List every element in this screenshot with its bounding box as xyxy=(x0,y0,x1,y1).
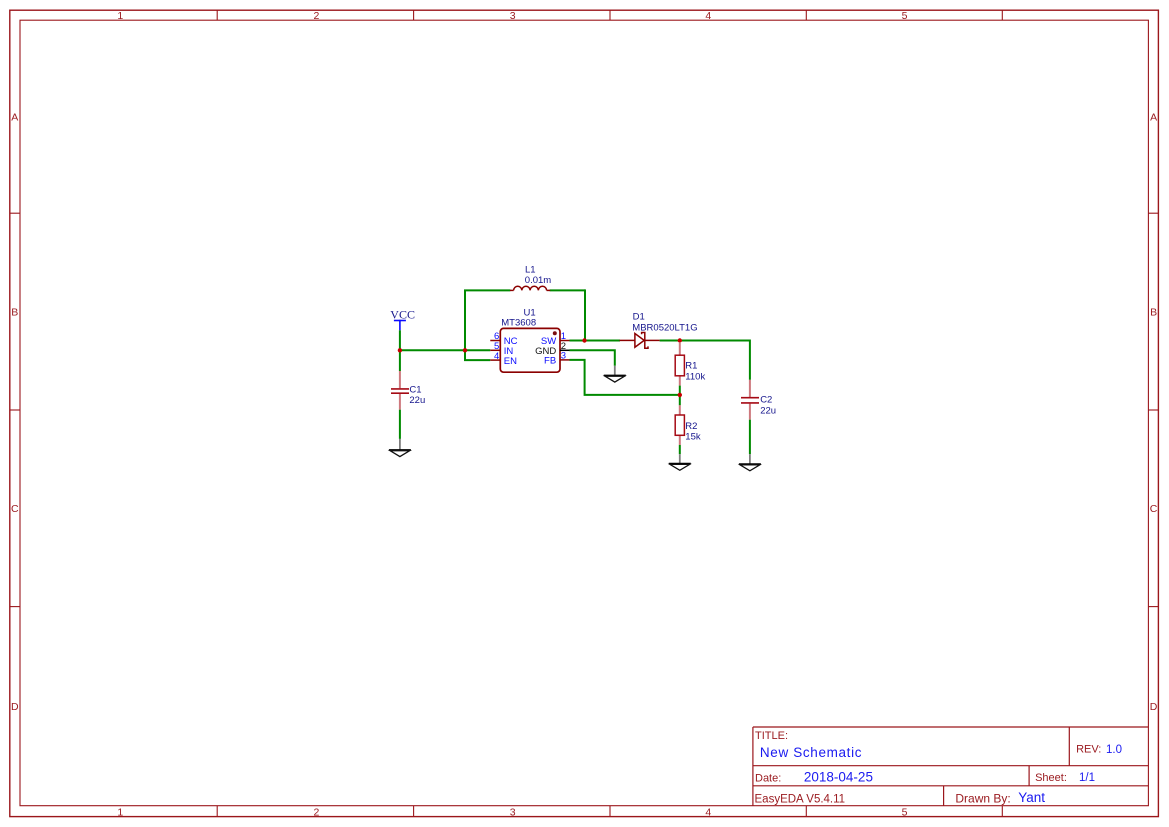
svg-text:Yant: Yant xyxy=(1018,790,1045,805)
pin 5 IN stub xyxy=(490,349,500,351)
U1 pin-1 orientation dot xyxy=(553,331,557,335)
diode D1 MBR0520LT1G xyxy=(620,333,660,349)
svg-text:1/1: 1/1 xyxy=(1079,772,1095,784)
pin 6 NC stub xyxy=(490,340,500,342)
svg-text:EN: EN xyxy=(504,356,517,367)
ground at R2 xyxy=(669,454,691,470)
wire C1 to ground xyxy=(399,410,401,439)
pin 1 SW stub xyxy=(560,340,570,342)
capacitor C1 xyxy=(391,371,409,410)
wire R1 to FB node xyxy=(679,386,681,395)
column labels bottom xyxy=(117,806,907,818)
svg-text:5: 5 xyxy=(902,10,908,22)
pin 4 EN stub xyxy=(490,359,500,361)
net flag VCC xyxy=(390,308,415,331)
pin 2 GND stub xyxy=(560,349,570,351)
svg-text:D1: D1 xyxy=(633,312,645,323)
wire VCC node to IN pin xyxy=(400,349,490,351)
ground at U1 GND pin xyxy=(604,366,626,382)
svg-text:C2: C2 xyxy=(760,395,772,406)
row tick marks right xyxy=(1148,213,1158,606)
wire GND pin horizontal xyxy=(570,350,615,366)
pin 3 FB stub xyxy=(560,359,570,361)
wire VCC stem to C1 top xyxy=(399,330,401,371)
wire diode to output node xyxy=(660,340,750,342)
svg-text:D: D xyxy=(1150,701,1158,713)
resistor R1 xyxy=(675,343,684,386)
svg-text:D: D xyxy=(11,701,19,713)
wire left loop vertical xyxy=(464,290,466,360)
wire right loop vertical to SW net xyxy=(584,289,586,340)
capacitor C2 xyxy=(741,380,759,420)
svg-text:C: C xyxy=(11,503,19,515)
svg-text:2: 2 xyxy=(313,806,319,818)
wire R2 to ground xyxy=(679,445,681,454)
ground at C1 xyxy=(389,439,411,457)
svg-text:0.01m: 0.01m xyxy=(525,275,551,286)
svg-text:B: B xyxy=(1150,307,1157,319)
wire FB pin routing xyxy=(570,360,680,395)
svg-text:5: 5 xyxy=(902,806,908,818)
svg-text:B: B xyxy=(11,307,18,319)
wire EN pin horizontal xyxy=(464,359,490,361)
svg-text:Sheet:: Sheet: xyxy=(1035,772,1067,784)
svg-text:22u: 22u xyxy=(760,405,776,416)
inductor L1 xyxy=(510,286,550,290)
wire L1 right xyxy=(550,289,585,291)
svg-text:EasyEDA V5.4.11: EasyEDA V5.4.11 xyxy=(755,793,846,805)
svg-text:3: 3 xyxy=(561,351,566,362)
op-amp U1 MT3608 body xyxy=(500,328,560,372)
svg-text:TITLE:: TITLE: xyxy=(755,730,788,742)
resistor R2 xyxy=(675,395,684,445)
svg-text:A: A xyxy=(1150,111,1157,123)
svg-text:22u: 22u xyxy=(409,395,425,406)
row labels right xyxy=(1150,111,1158,713)
column tick marks top xyxy=(217,10,1002,20)
row tick marks left xyxy=(10,213,20,606)
svg-text:MT3608: MT3608 xyxy=(501,317,536,328)
svg-text:3: 3 xyxy=(510,10,516,22)
svg-text:2018-04-25: 2018-04-25 xyxy=(804,769,873,784)
wire output node to C2 xyxy=(749,341,750,380)
junction output node at R1 xyxy=(678,338,682,342)
svg-text:1: 1 xyxy=(117,806,123,818)
svg-text:MBR0520LT1G: MBR0520LT1G xyxy=(632,323,697,334)
svg-text:3: 3 xyxy=(510,806,516,818)
svg-text:VCC: VCC xyxy=(390,308,415,322)
svg-text:REV:: REV: xyxy=(1076,744,1101,756)
wire C2 to ground xyxy=(749,420,751,455)
svg-text:C1: C1 xyxy=(409,384,421,395)
svg-text:Drawn By:: Drawn By: xyxy=(955,792,1010,806)
svg-text:4: 4 xyxy=(705,806,711,818)
svg-text:New Schematic: New Schematic xyxy=(760,745,862,760)
svg-text:A: A xyxy=(11,111,18,123)
column labels top xyxy=(117,10,907,22)
svg-text:4: 4 xyxy=(705,10,711,22)
svg-text:FB: FB xyxy=(544,356,556,367)
svg-text:110k: 110k xyxy=(685,371,705,382)
svg-text:4: 4 xyxy=(494,351,499,362)
junction left loop on VCC net xyxy=(463,348,467,352)
row labels left xyxy=(11,111,19,713)
ground at C2 xyxy=(739,454,761,471)
junction SW net xyxy=(582,338,586,342)
svg-text:C: C xyxy=(1150,503,1158,515)
svg-text:2: 2 xyxy=(313,10,319,22)
title block borders xyxy=(753,727,1149,806)
wire SW pin to diode xyxy=(570,340,621,342)
junction VCC node xyxy=(398,348,402,352)
svg-text:1.0: 1.0 xyxy=(1106,744,1122,756)
svg-text:L1: L1 xyxy=(525,264,536,275)
svg-text:R1: R1 xyxy=(685,360,697,371)
svg-text:15k: 15k xyxy=(685,431,701,442)
wire L1 left xyxy=(464,289,510,291)
svg-text:1: 1 xyxy=(117,10,123,22)
junction FB node xyxy=(678,393,682,397)
column tick marks bottom xyxy=(217,806,1002,817)
svg-text:Date:: Date: xyxy=(755,772,781,784)
